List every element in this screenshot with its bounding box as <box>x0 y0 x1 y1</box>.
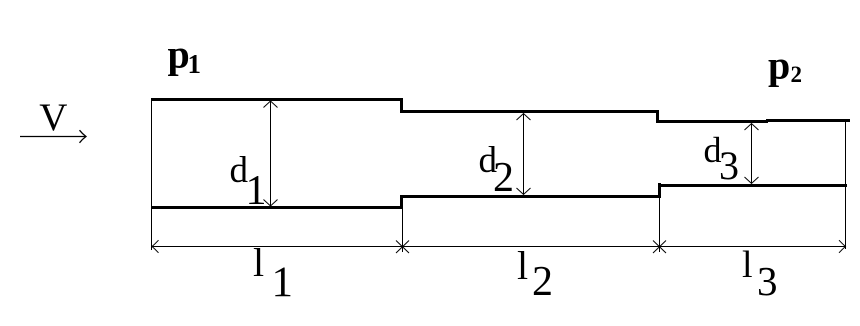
svg-text:p: p <box>768 43 790 88</box>
diameter arrow d3 <box>745 124 759 184</box>
diameter arrow d2 <box>517 114 531 195</box>
svg-text:p: p <box>168 32 190 77</box>
label d3 <box>704 130 740 188</box>
extension line at step 2-3 <box>659 198 661 252</box>
extension line right at pipe outlet <box>845 119 847 249</box>
svg-text:V: V <box>39 96 67 139</box>
pipe section 2 bottom wall <box>400 195 661 198</box>
label p1 <box>168 32 202 80</box>
extension line left at pipe inlet <box>151 98 153 250</box>
svg-text:2: 2 <box>791 62 803 87</box>
svg-text:2: 2 <box>493 155 514 201</box>
svg-text:l: l <box>517 243 528 288</box>
label l2 <box>517 243 553 305</box>
pipe section 3 top wall segment b <box>766 119 850 122</box>
pipe section 2 top wall <box>400 110 659 113</box>
dimension arrowhead right <box>839 240 846 253</box>
svg-text:3: 3 <box>719 143 739 188</box>
step 1-2 bottom wall <box>400 195 403 209</box>
dimension tick cross at step 1-2 <box>396 241 409 254</box>
svg-text:2: 2 <box>532 259 553 305</box>
label p2 <box>768 43 802 88</box>
step 2-3 top wall <box>656 110 659 123</box>
svg-text:1: 1 <box>246 168 267 214</box>
velocity arrow <box>20 130 86 143</box>
dimension tick cross at step 2-3 <box>653 241 666 254</box>
svg-text:3: 3 <box>757 258 778 304</box>
dimension arrowhead left <box>152 240 159 253</box>
step 2-3 bottom wall <box>658 183 661 198</box>
label d2 <box>479 140 515 201</box>
svg-text:1: 1 <box>188 49 202 79</box>
svg-text:l: l <box>742 244 753 286</box>
label d1 <box>230 150 267 214</box>
step 1-2 top wall <box>400 98 403 113</box>
svg-text:l: l <box>253 240 264 285</box>
extension line at step 1-2 <box>402 209 404 252</box>
pipe section 3 top wall segment a <box>656 120 768 123</box>
pipe section 3 bottom wall <box>658 184 847 187</box>
length dimension line <box>152 246 846 248</box>
pipe section 1 top wall <box>152 98 403 101</box>
label l1 <box>253 240 293 306</box>
svg-text:1: 1 <box>272 259 294 306</box>
pipe section 1 bottom wall <box>152 206 403 209</box>
label l3 <box>742 244 778 304</box>
diameter arrow d1 <box>264 101 278 206</box>
